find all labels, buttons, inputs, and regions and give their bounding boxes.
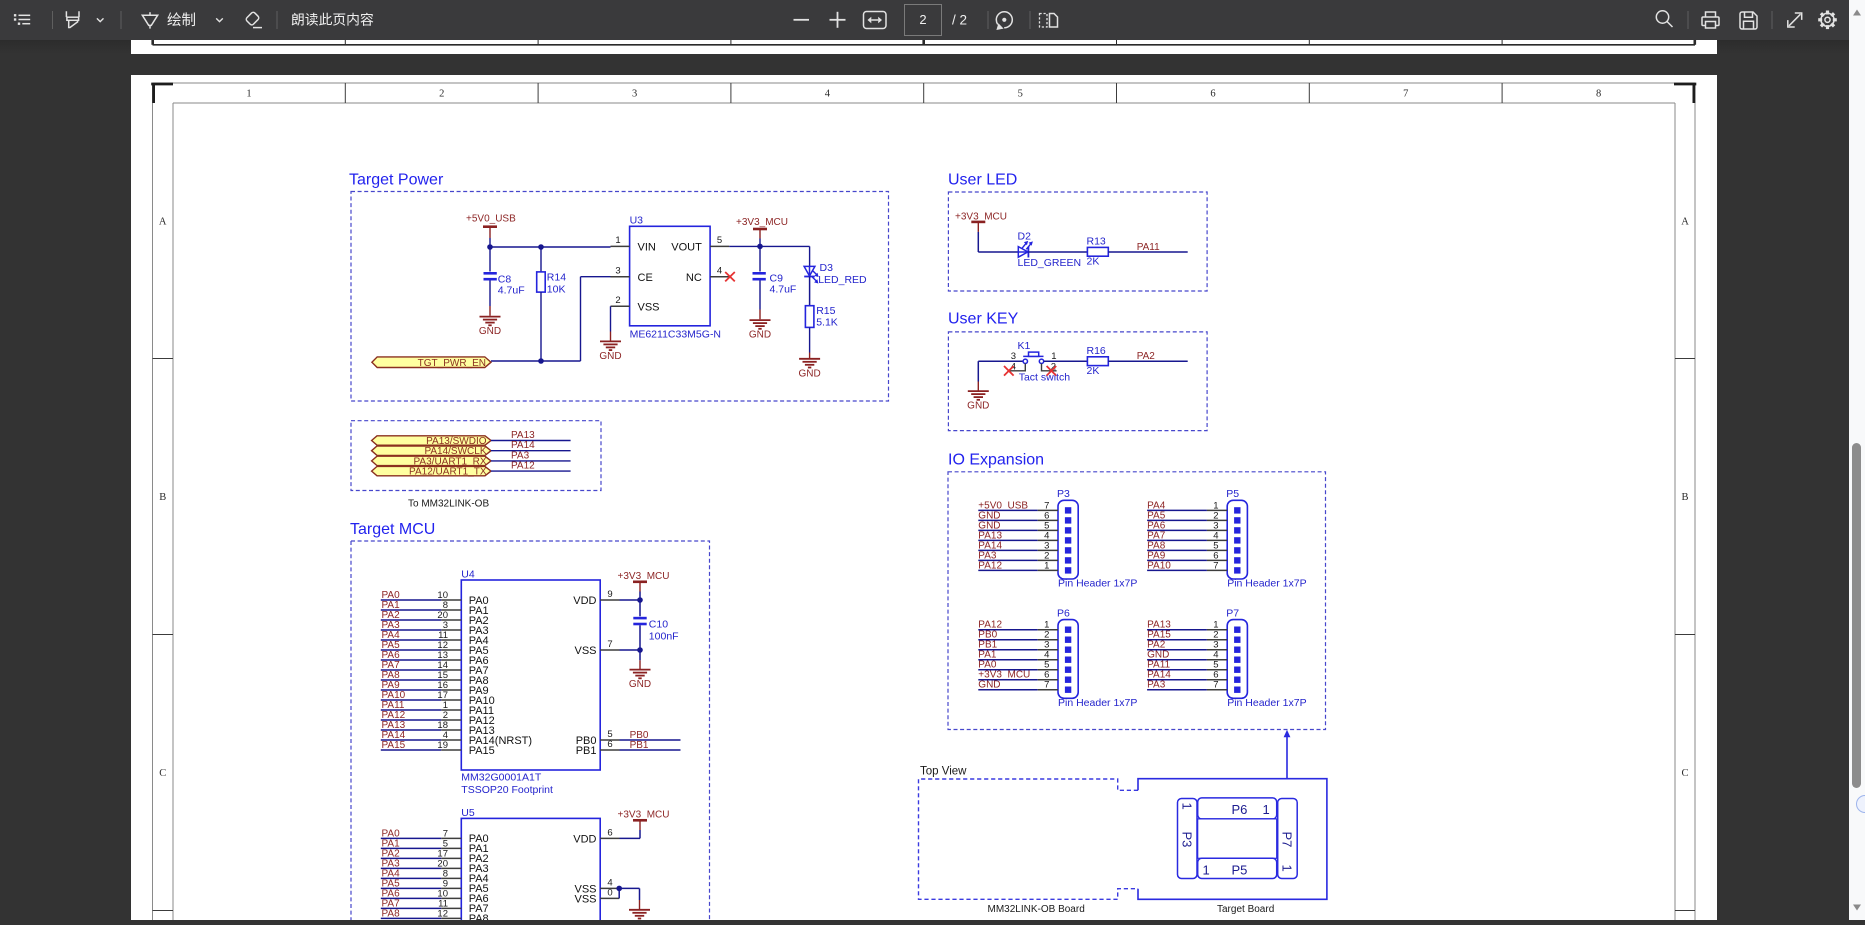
svg-text:P7: P7 <box>1226 608 1239 620</box>
pin PA8 12 <box>381 908 489 925</box>
pin 5 GND (P3) <box>978 520 1058 531</box>
svg-text:GND: GND <box>599 351 621 362</box>
LED D3 <box>804 262 867 286</box>
page 1 bottom frame line <box>153 40 1696 45</box>
svg-text:1: 1 <box>615 235 620 246</box>
svg-text:NC: NC <box>686 272 702 284</box>
frame labels <box>159 89 1689 779</box>
pin 7 +5V0_USB (P3) <box>978 500 1058 511</box>
pin VSS 7 (U4) <box>574 639 619 657</box>
top view connector P7 <box>1278 799 1298 879</box>
pin 5 VOUT <box>671 235 729 253</box>
svg-text:PA15: PA15 <box>469 745 495 757</box>
capacitor C10 <box>633 600 678 650</box>
svg-text:4.7uF: 4.7uF <box>498 285 525 297</box>
pin 3 PA2 (P7) <box>1147 640 1227 651</box>
junction <box>538 358 544 364</box>
svg-text:Pin Header 1x7P: Pin Header 1x7P <box>1058 697 1137 709</box>
svg-text:C: C <box>1681 768 1688 779</box>
top view connector P6 <box>1198 798 1277 819</box>
svg-text:VDD: VDD <box>573 834 596 846</box>
svg-text:Pin Header 1x7P: Pin Header 1x7P <box>1227 697 1306 709</box>
pin VSS 4 (U5) <box>574 878 619 896</box>
power +3V3_MCU (U5) <box>618 809 670 830</box>
svg-text:TSSOP20 Footprint: TSSOP20 Footprint <box>461 784 553 796</box>
net flag TGT_PWR_EN <box>372 357 491 369</box>
svg-text:U5: U5 <box>461 807 475 819</box>
svg-text:P5: P5 <box>1226 488 1239 500</box>
pin PA7 11 <box>381 898 489 915</box>
svg-text:PA11: PA11 <box>1137 242 1160 253</box>
pin 3 PB1 (P6) <box>978 640 1058 651</box>
pin 4 GND (P7) <box>1147 650 1227 661</box>
wire D2 to R13 <box>1028 251 1087 253</box>
pin PA13 18 <box>381 720 495 737</box>
svg-text:R16: R16 <box>1087 345 1106 357</box>
wire VDD (U5) <box>620 830 641 838</box>
pin PA3 3 <box>381 620 489 637</box>
svg-text:10K: 10K <box>547 284 566 296</box>
capacitor C9 <box>753 246 797 309</box>
pin PA8 15 <box>381 670 489 687</box>
svg-text:A: A <box>1681 216 1689 227</box>
pin 4 PA13 (P3) <box>978 530 1058 541</box>
svg-text:R14: R14 <box>547 272 566 284</box>
wire PA13 <box>491 440 571 442</box>
pin 7 PA3 (P7) <box>1147 680 1227 691</box>
pin PA5 12 <box>381 640 489 657</box>
svg-text:PB1: PB1 <box>576 745 597 757</box>
svg-text:P7: P7 <box>1280 832 1295 848</box>
ground (R15) <box>798 353 820 380</box>
svg-text:IO Expansion: IO Expansion <box>948 451 1044 468</box>
pin PA2 20 <box>381 610 489 627</box>
pin PA14(NRST) 4 <box>381 730 532 747</box>
pin PA15 19 <box>381 740 495 757</box>
wire VOUT net <box>729 239 809 267</box>
svg-text:R15: R15 <box>816 305 835 317</box>
pin PA7 14 <box>381 660 489 677</box>
pin 1 PA13 (P7) <box>1147 620 1227 631</box>
pin PA3 20 <box>381 858 489 875</box>
svg-text:VOUT: VOUT <box>671 242 702 254</box>
svg-text:1: 1 <box>1180 803 1195 810</box>
svg-text:2K: 2K <box>1087 365 1100 377</box>
svg-text:GND: GND <box>629 679 651 690</box>
pin 2 PA3 (P3) <box>978 550 1058 561</box>
svg-text:Tact switch: Tact switch <box>1019 372 1071 384</box>
svg-text:LED_GREEN: LED_GREEN <box>1018 257 1082 269</box>
svg-text:P5: P5 <box>1232 863 1248 878</box>
toolbar <box>0 0 1849 40</box>
section border: User KEY <box>948 332 1207 431</box>
svg-text:6: 6 <box>1210 89 1215 100</box>
svg-text:D2: D2 <box>1018 231 1032 243</box>
resistor R14 <box>537 247 567 361</box>
svg-text:B: B <box>159 492 166 503</box>
wire VDD (U4) <box>620 592 641 601</box>
svg-text:D3: D3 <box>820 262 834 274</box>
svg-text:P6: P6 <box>1232 802 1248 817</box>
wire K1 to R16 <box>1044 360 1088 362</box>
pin 4 NC (no connect) <box>686 266 735 284</box>
page 2 drawing frame <box>153 83 1696 920</box>
junction <box>637 597 643 603</box>
wire PA12 <box>491 470 571 472</box>
svg-text:0: 0 <box>607 888 612 899</box>
svg-text:7: 7 <box>1403 89 1408 100</box>
floating button peeking at right edge <box>1856 795 1865 813</box>
svg-text:GND: GND <box>479 326 501 337</box>
svg-text:3: 3 <box>632 89 637 100</box>
Target Board outline <box>1138 779 1327 900</box>
svg-text:2K: 2K <box>1087 256 1100 268</box>
junction <box>616 886 622 892</box>
wire PA3 <box>491 460 571 462</box>
svg-text:P3: P3 <box>1057 488 1070 500</box>
pin PA9 16 <box>381 680 489 697</box>
resistor R16 <box>1087 345 1109 377</box>
svg-text:6: 6 <box>607 739 612 750</box>
svg-text:+3V3_MCU: +3V3_MCU <box>736 217 788 228</box>
svg-text:1: 1 <box>1044 560 1049 571</box>
svg-text:PA8: PA8 <box>469 913 489 920</box>
svg-text:2: 2 <box>615 295 620 306</box>
wire VSS to ground <box>610 306 612 331</box>
pin PA1 5 <box>381 838 489 855</box>
svg-text:12: 12 <box>437 908 448 919</box>
pin 4 PA7 (P5) <box>1147 530 1227 541</box>
IC U3 <box>630 215 721 341</box>
junction <box>757 244 763 250</box>
pin 6 +3V3_MCU (P6) <box>978 670 1058 681</box>
page 2 (schematic sheet) <box>131 75 1717 921</box>
pin 6 PA9 (P5) <box>1147 550 1227 561</box>
connector P5 <box>1226 488 1306 590</box>
svg-text:4: 4 <box>825 89 831 100</box>
wire PA14 <box>491 450 571 452</box>
pin PA6 13 <box>381 650 489 667</box>
svg-text:3: 3 <box>615 266 620 277</box>
svg-text:/ 2: / 2 <box>952 13 967 28</box>
pin 6 PA14 (P7) <box>1147 670 1227 681</box>
svg-text:ME6211C33M5G-N: ME6211C33M5G-N <box>630 329 721 341</box>
svg-text:1: 1 <box>1263 802 1270 817</box>
pin 3 PA14 (P3) <box>978 540 1058 551</box>
svg-text:绘制: 绘制 <box>167 12 196 29</box>
pin 3 CE <box>611 266 653 284</box>
svg-text:Pin Header 1x7P: Pin Header 1x7P <box>1227 577 1306 589</box>
wire R13 to PA11 <box>1108 251 1187 253</box>
svg-text:1: 1 <box>246 89 251 100</box>
wire VSS (U4) <box>620 649 641 651</box>
pin PB0 5 (U4) <box>576 729 620 747</box>
pin PA4 8 <box>381 868 489 885</box>
IC U4 <box>461 569 600 797</box>
svg-text:PB1: PB1 <box>630 740 649 751</box>
pin PA2 17 <box>381 848 489 865</box>
power +5V0_USB <box>466 214 516 239</box>
pin 2 stub (K1, no connect) <box>1042 364 1057 376</box>
wire GND to K1 <box>978 361 1023 381</box>
svg-text:VSS: VSS <box>574 645 596 657</box>
pin PA1 8 <box>381 600 489 617</box>
pin 1 PA4 (P5) <box>1147 500 1227 511</box>
svg-text:P3: P3 <box>1180 832 1195 848</box>
pin PA0 10 <box>381 590 489 607</box>
svg-text:1: 1 <box>1280 865 1295 872</box>
switch K1 <box>1011 340 1071 384</box>
connector P6 <box>1057 608 1137 710</box>
junction <box>637 647 643 653</box>
frame corner marks <box>151 83 1696 103</box>
junction <box>487 244 493 250</box>
svg-text:5: 5 <box>1018 89 1023 100</box>
pin 6 GND (P3) <box>978 510 1058 521</box>
svg-text:C10: C10 <box>649 619 668 631</box>
pin PA12 2 <box>381 710 495 727</box>
net flag PA3/UART1_RX <box>372 456 491 467</box>
pin VDD 6 (U5) <box>573 828 619 846</box>
svg-text:+3V3_MCU: +3V3_MCU <box>618 571 670 582</box>
svg-text:K1: K1 <box>1018 340 1031 352</box>
pin 4 stub (K1, no connect) <box>1004 364 1025 376</box>
svg-text:5.1K: 5.1K <box>816 317 838 329</box>
pin PA11 1 <box>381 700 494 717</box>
pin 5 PA8 (P5) <box>1147 540 1227 551</box>
svg-text:B: B <box>1681 492 1688 503</box>
pin 7 GND (P6) <box>978 680 1058 691</box>
IC U5 <box>461 807 600 923</box>
svg-text:TGT_PWR_EN: TGT_PWR_EN <box>418 358 486 369</box>
svg-text:5: 5 <box>717 235 722 246</box>
svg-text:User KEY: User KEY <box>948 311 1019 328</box>
frame column ticks <box>153 83 1696 911</box>
junction <box>538 244 544 250</box>
svg-text:6: 6 <box>607 828 612 839</box>
svg-text:VSS: VSS <box>574 894 596 906</box>
svg-text:7: 7 <box>1213 560 1218 571</box>
svg-text:User LED: User LED <box>948 172 1017 189</box>
svg-text:VSS: VSS <box>638 302 660 314</box>
MM32LINK-OB board outline (dashed) <box>919 779 1139 899</box>
svg-text:MM32G0001A1T: MM32G0001A1T <box>461 772 542 784</box>
svg-text:Target Board: Target Board <box>1217 904 1274 915</box>
net flag PA13/SWDIO <box>372 436 491 447</box>
ground (U3 VSS) <box>599 332 621 362</box>
resistor R13 <box>1087 236 1109 268</box>
top view connector P3 <box>1178 799 1198 879</box>
wire +5V to VIN <box>490 238 611 247</box>
svg-text:U3: U3 <box>630 215 644 227</box>
section border: IO Expansion <box>948 472 1326 730</box>
bottom strip of page 1 <box>131 40 1717 54</box>
svg-text:7: 7 <box>1213 680 1218 691</box>
pin PA4 11 <box>381 630 489 647</box>
svg-text:Pin Header 1x7P: Pin Header 1x7P <box>1058 577 1137 589</box>
pin VDD 9 (U4) <box>573 589 619 607</box>
top view connector P5 <box>1198 858 1277 878</box>
top view board opening <box>1198 819 1277 858</box>
svg-text:MM32LINK-OB Board: MM32LINK-OB Board <box>988 904 1085 915</box>
svg-text:8: 8 <box>1596 89 1601 100</box>
capacitor C8 <box>484 247 525 306</box>
pin 4 PA1 (P6) <box>978 650 1058 661</box>
wire PB0 <box>620 739 681 741</box>
ground (C8) <box>479 306 501 337</box>
pin 1 VIN <box>611 235 656 253</box>
svg-text:GND: GND <box>798 369 820 380</box>
pin VSS 0 (U5) <box>574 888 619 906</box>
svg-text:9: 9 <box>607 589 612 600</box>
section border: Target Power <box>351 192 889 402</box>
svg-text:U4: U4 <box>461 569 475 581</box>
pin PA10 17 <box>381 690 495 707</box>
svg-text:GND: GND <box>749 330 771 341</box>
pin PA5 9 <box>381 878 489 895</box>
pin 2 PB0 (P6) <box>978 630 1058 641</box>
svg-text:PA12/UART1_TX: PA12/UART1_TX <box>409 467 487 478</box>
svg-text:Top View: Top View <box>920 766 967 778</box>
pin 2 PA15 (P7) <box>1147 630 1227 641</box>
connector P7 <box>1226 608 1306 710</box>
svg-text:Target MCU: Target MCU <box>350 521 435 538</box>
svg-text:+3V3_MCU: +3V3_MCU <box>618 809 670 820</box>
svg-text:P6: P6 <box>1057 608 1070 620</box>
connector P3 <box>1057 488 1137 590</box>
svg-text:VIN: VIN <box>638 242 656 254</box>
svg-text:19: 19 <box>437 740 448 751</box>
pin 3 PA6 (P5) <box>1147 520 1227 531</box>
svg-text:4: 4 <box>717 266 722 277</box>
pin 2 VSS <box>611 295 660 313</box>
svg-text:LED_RED: LED_RED <box>818 274 867 286</box>
svg-text:C: C <box>159 768 166 779</box>
svg-text:Target Power: Target Power <box>349 172 444 189</box>
power +3V3_MCU (LED) <box>955 212 1007 232</box>
pin PA0 7 <box>381 828 489 845</box>
wire +3V3 to D2 <box>978 232 1018 252</box>
svg-text:PA8: PA8 <box>382 908 401 919</box>
wire PB1 <box>620 749 681 751</box>
pin 7 PA10 (P5) <box>1147 560 1227 571</box>
svg-text:PA2: PA2 <box>1137 351 1156 362</box>
pin 5 PA11 (P7) <box>1147 660 1227 671</box>
pin 2 PA5 (P5) <box>1147 510 1227 521</box>
section border: link connector block <box>351 421 601 491</box>
svg-text:CE: CE <box>638 272 653 284</box>
LED D2 <box>1018 231 1082 270</box>
section border: Target MCU <box>351 541 710 920</box>
svg-text:朗读此页内容: 朗读此页内容 <box>291 12 374 28</box>
scrollbar <box>1849 0 1865 920</box>
section border: User LED <box>948 192 1207 291</box>
pin PA6 10 <box>381 888 489 905</box>
resistor R15 <box>805 305 837 353</box>
svg-text:PA12: PA12 <box>511 461 535 472</box>
ground (K1) <box>967 382 989 412</box>
wire to ground (U4) <box>639 650 641 660</box>
svg-text:7: 7 <box>1044 680 1049 691</box>
svg-text:A: A <box>159 216 167 227</box>
wire VSS riser (U5) <box>619 888 639 900</box>
svg-text:1: 1 <box>1203 863 1210 878</box>
wire R16 to PA2 <box>1108 360 1187 362</box>
svg-text:100nF: 100nF <box>649 631 679 643</box>
svg-text:VDD: VDD <box>573 595 596 607</box>
wire D3 to R15 <box>809 277 811 306</box>
ground (C9) <box>749 310 771 341</box>
svg-text:To MM32LINK-OB: To MM32LINK-OB <box>408 499 489 510</box>
svg-text:2: 2 <box>439 89 444 100</box>
svg-text:R13: R13 <box>1087 236 1106 248</box>
svg-text:GND: GND <box>967 401 989 412</box>
pin 1 PA12 (P3) <box>978 560 1058 571</box>
leader line to Top View <box>1284 730 1291 779</box>
net flag PA14/SWCLK <box>372 446 491 457</box>
ground (U4) <box>629 660 651 690</box>
ground (U5) <box>629 900 650 919</box>
pin PB1 6 (U4) <box>576 739 620 757</box>
pin 1 PA12 (P6) <box>978 620 1058 631</box>
power +3V3_MCU (U3 output) <box>736 217 788 239</box>
svg-text:7: 7 <box>607 639 612 650</box>
svg-text:4.7uF: 4.7uF <box>770 284 797 296</box>
wire CE to TGT_PWR_EN <box>491 277 611 361</box>
power +3V3_MCU (U4) <box>618 571 670 592</box>
pin 5 PA0 (P6) <box>978 660 1058 671</box>
svg-text:+5V0_USB: +5V0_USB <box>466 214 516 225</box>
net flag PA12/UART1_TX <box>372 466 491 477</box>
